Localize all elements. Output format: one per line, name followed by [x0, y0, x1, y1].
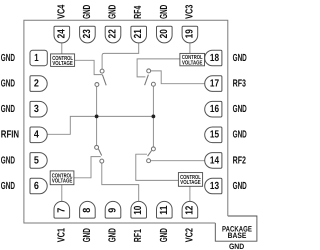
wire RFIN pin4 to common node — [47, 116, 153, 134]
wire RF1 switch S3 to pin10 — [102, 163, 139, 201]
pin 1 pad — [30, 50, 47, 65]
switch S2 (RF3) contact 1 — [147, 69, 151, 73]
control voltage box U1 — [51, 54, 75, 67]
svg-text:GND: GND — [233, 53, 247, 64]
switch S4 (RF2) contact 2 — [147, 159, 151, 163]
control voltage box U4 — [178, 173, 202, 187]
wire node A vertical — [96, 87, 98, 146]
pin 17 pad — [205, 76, 222, 92]
switch S2 (RF3) contact 2 — [151, 82, 155, 86]
svg-text:11: 11 — [159, 205, 170, 214]
switch S2 (RF3) arm — [145, 75, 149, 86]
svg-text:VC4: VC4 — [56, 4, 67, 18]
pin 21 pad — [131, 26, 147, 43]
svg-text:3: 3 — [34, 104, 39, 115]
svg-text:20: 20 — [159, 29, 170, 38]
control voltage box U2 — [180, 53, 205, 66]
switch S1 (RF4) arm — [102, 75, 106, 86]
switch S3 (RF1) arm — [98, 149, 101, 156]
svg-text:GND: GND — [159, 228, 170, 242]
svg-text:5: 5 — [34, 155, 39, 166]
svg-text:RF2: RF2 — [233, 155, 247, 166]
svg-text:GND: GND — [1, 104, 15, 115]
wire control U3 to S3 arm — [74, 157, 101, 178]
pin 3 pad — [30, 101, 47, 117]
pin 15 pad — [205, 127, 222, 143]
svg-text:12: 12 — [184, 205, 195, 214]
svg-text:6: 6 — [34, 181, 39, 192]
switch S3 (RF1) contact 1 — [95, 145, 99, 149]
wire control U2 to S2 arm — [137, 59, 180, 77]
switch S1 (RF4) contact 1 — [100, 69, 104, 73]
svg-text:RFIN: RFIN — [1, 130, 19, 141]
pin 23 pad — [80, 26, 96, 43]
control voltage box U3 — [50, 171, 74, 185]
switch S4 (RF2) arm — [148, 151, 152, 157]
pin 12 pad — [182, 201, 198, 218]
svg-text:VOLTAGE: VOLTAGE — [52, 178, 72, 185]
svg-text:RF3: RF3 — [233, 79, 247, 90]
pin 2 pad — [30, 76, 47, 92]
svg-text:7: 7 — [56, 208, 67, 213]
pin 8 pad — [80, 201, 96, 218]
svg-text:22: 22 — [108, 29, 119, 38]
svg-text:GND: GND — [1, 181, 15, 192]
pin 10 pad — [131, 201, 147, 218]
svg-text:8: 8 — [82, 208, 93, 213]
pin 5 pad — [30, 153, 47, 169]
node B junction dot — [152, 115, 156, 119]
pin 6 pad — [30, 178, 47, 194]
pin 20 pad — [156, 26, 172, 43]
svg-text:GND: GND — [1, 79, 15, 90]
svg-text:16: 16 — [210, 104, 219, 115]
package base pad (exposed paddle) — [215, 216, 257, 241]
svg-text:VOLTAGE: VOLTAGE — [180, 179, 200, 186]
svg-text:GND: GND — [108, 228, 119, 242]
wire VC3 pin19 to control box U2 — [189, 43, 191, 54]
pin 16 pad — [205, 101, 222, 117]
svg-text:GND: GND — [233, 130, 247, 141]
svg-text:9: 9 — [108, 208, 119, 213]
pin 7 pad — [54, 201, 70, 218]
svg-text:GND: GND — [108, 5, 119, 19]
pin 13 pad — [205, 178, 222, 194]
svg-text:13: 13 — [210, 181, 219, 192]
svg-text:VC2: VC2 — [184, 228, 195, 242]
svg-text:GND: GND — [1, 53, 15, 64]
svg-text:17: 17 — [210, 79, 219, 90]
svg-text:GND: GND — [1, 155, 15, 166]
svg-text:GND: GND — [159, 5, 170, 19]
wire control U4 to S4 arm — [136, 154, 179, 180]
wire VC1 pin7 to control box U3 — [61, 185, 63, 202]
wire VC2 pin12 to control box U4 — [189, 186, 191, 201]
wire RF3 pin17 to switch S2 — [151, 71, 205, 84]
svg-text:19: 19 — [184, 29, 195, 38]
wire control U1 to S1 arm — [75, 60, 103, 74]
svg-text:24: 24 — [56, 29, 67, 38]
svg-text:14: 14 — [210, 155, 219, 166]
switch S3 (RF1) contact 2 — [100, 159, 104, 163]
svg-text:1: 1 — [34, 53, 39, 64]
svg-text:2: 2 — [34, 79, 39, 90]
pin 14 pad — [205, 153, 222, 169]
pin 11 pad — [157, 201, 173, 218]
svg-text:15: 15 — [210, 130, 219, 141]
svg-text:VC1: VC1 — [56, 228, 67, 242]
svg-text:GND: GND — [233, 181, 247, 192]
svg-text:GND: GND — [229, 242, 245, 250]
wire node B vertical — [152, 86, 154, 147]
pin 18 pad — [205, 50, 222, 66]
svg-text:10: 10 — [133, 205, 144, 214]
pin 4 pad — [30, 127, 47, 143]
wire VC4 pin24 to control box U1 — [61, 43, 63, 54]
pin 24 pad — [54, 26, 70, 43]
svg-text:GND: GND — [82, 228, 93, 242]
svg-text:BASE: BASE — [228, 231, 247, 240]
svg-text:18: 18 — [210, 53, 219, 64]
wire RF2 switch S4 to pin14 — [151, 160, 205, 162]
wire RF4 pin21 to switch S1 — [102, 43, 139, 69]
svg-text:RF1: RF1 — [133, 229, 144, 242]
svg-text:VC3: VC3 — [184, 4, 195, 18]
package outline — [24, 20, 228, 223]
pin 9 pad — [105, 201, 121, 218]
switch S1 (RF4) contact 2 — [95, 83, 99, 87]
switch S4 (RF2) contact 1 — [151, 147, 155, 151]
pin 22 pad — [105, 26, 121, 43]
svg-text:RF4: RF4 — [133, 6, 144, 19]
svg-text:21: 21 — [133, 29, 144, 38]
pin 19 pad — [182, 26, 198, 43]
svg-text:GND: GND — [82, 5, 93, 19]
svg-text:VOLTAGE: VOLTAGE — [182, 59, 202, 66]
svg-text:23: 23 — [82, 29, 93, 38]
svg-text:GND: GND — [233, 104, 247, 115]
svg-text:4: 4 — [34, 130, 39, 141]
node A junction dot — [95, 115, 99, 119]
svg-text:VOLTAGE: VOLTAGE — [52, 60, 72, 67]
